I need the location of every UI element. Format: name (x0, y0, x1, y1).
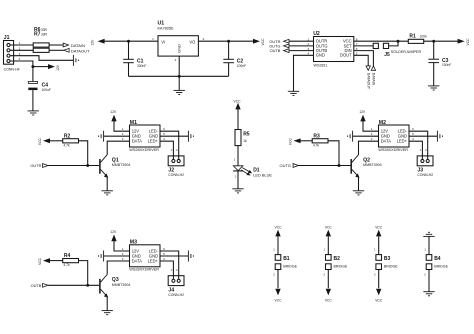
module M1 (122, 120, 165, 152)
ground U2 (288, 91, 299, 95)
wire B2 to bottom VCC (327, 270, 329, 289)
svg-text:OUTR: OUTR (30, 163, 41, 168)
svg-text:330nF: 330nF (137, 64, 146, 68)
svg-text:BRIDGE: BRIDGE (283, 265, 297, 269)
svg-text:CONN-H4: CONN-H4 (4, 67, 20, 71)
transistor Q2 (351, 155, 381, 178)
svg-text:DATA: DATA (381, 139, 392, 144)
pin number (424, 248, 426, 252)
wire OUTG to Q2 base (299, 165, 351, 167)
ground left (348, 131, 353, 142)
bridge B4 (426, 255, 448, 270)
wire M2.DATA to Q2 (359, 141, 379, 155)
power 12V arrow M3 (110, 230, 117, 241)
wire C4 to ground (32, 90, 34, 111)
svg-text:J1: J1 (4, 35, 10, 41)
svg-text:R3: R3 (313, 133, 320, 139)
wire top to B3 (378, 236, 380, 254)
svg-text:12V: 12V (359, 110, 366, 114)
svg-text:100nF: 100nF (237, 64, 246, 68)
port OUTR (269, 39, 289, 44)
ground right (188, 251, 193, 262)
wire top to B2 (327, 236, 329, 254)
wire J5 to VCC net (389, 41, 398, 46)
bridge B3 (376, 255, 398, 270)
ground Q3 (102, 311, 113, 315)
connector J2 (168, 156, 184, 177)
port DATAIN (63, 43, 85, 48)
power VCC arrow R3 (289, 138, 301, 146)
wire M1.LED+ to J2 (160, 141, 173, 159)
svg-text:100nF: 100nF (442, 63, 451, 67)
power VCC arrow U1 output (253, 38, 265, 46)
capacitor C1 (123, 58, 146, 67)
regulator U1 (152, 20, 204, 62)
svg-text:VCC: VCC (234, 99, 242, 103)
capacitor C3 (428, 58, 451, 67)
power VCC arrow bottom B2 (325, 289, 333, 303)
wire J1.3 to ground (10, 56, 73, 61)
svg-text:4.7k: 4.7k (63, 263, 70, 267)
wire M1.LED- to J2 (160, 131, 179, 159)
wire ground to M1.GND (104, 135, 130, 137)
svg-text:B3: B3 (384, 256, 391, 262)
pin number (234, 157, 236, 161)
svg-text:CONN-H2: CONN-H2 (417, 173, 433, 177)
svg-text:33R: 33R (41, 33, 48, 37)
wire B1 to bottom VCC (277, 270, 279, 289)
svg-text:DATA: DATA (132, 139, 143, 144)
svg-text:VCC: VCC (375, 299, 383, 303)
wire 12V to M3 (114, 241, 130, 251)
wire M3.GND right to ground (160, 255, 188, 257)
pin numbers (171, 148, 178, 152)
svg-text:WS28XXDRIVER: WS28XXDRIVER (378, 148, 408, 152)
svg-text:WS28XXDRIVER: WS28XXDRIVER (129, 268, 159, 272)
svg-text:VCC: VCC (261, 38, 265, 46)
resistor R7 (33, 32, 49, 53)
wire OUTB to U2 (289, 50, 314, 52)
resistor R4 (63, 253, 79, 267)
wire VCC to R5 (237, 109, 239, 130)
wire R3 to Q2 base (328, 141, 339, 166)
svg-text:MMBT3904: MMBT3904 (363, 163, 382, 167)
power VCC arrow top B2 (325, 225, 333, 236)
wire OUTR to Q1 base (48, 165, 99, 167)
svg-text:BRIDGE: BRIDGE (334, 265, 348, 269)
svg-text:MMBT3904: MMBT3904 (112, 283, 131, 287)
svg-text:B4: B4 (434, 256, 441, 262)
resistor R2 (63, 133, 79, 147)
power VCC arrow bottom B3 (375, 289, 383, 303)
pin number (324, 248, 326, 252)
resistor R6 (33, 27, 49, 47)
wire C2 (228, 41, 230, 76)
pin numbers J1 (19, 41, 21, 61)
power VCC arrow bottom B1 (275, 289, 283, 303)
wire Q3 emitter to ground (106, 297, 108, 311)
svg-text:M3: M3 (130, 240, 137, 246)
wire 12V to M1 (114, 121, 130, 131)
wire U2.SET to J5 (354, 45, 373, 47)
port DATAIN vertical (371, 66, 375, 86)
svg-text:M2: M2 (379, 120, 386, 126)
ground top B4 (423, 232, 434, 236)
svg-text:SOLDERJUMPER: SOLDERJUMPER (391, 50, 422, 54)
resistor R5 (235, 130, 250, 146)
ground J1.3 (73, 55, 78, 66)
svg-text:OUTB: OUTB (270, 48, 281, 53)
power VCC arrow right (458, 38, 470, 46)
pin number (273, 273, 275, 277)
LED D1 (233, 166, 272, 178)
svg-text:4.7k: 4.7k (313, 143, 320, 147)
svg-text:LED+: LED+ (148, 139, 159, 144)
svg-text:DATAOUT: DATAOUT (71, 48, 90, 53)
wire C3 (433, 41, 435, 86)
wire R2 to Q1 base (79, 141, 88, 166)
power 12V arrow U1 input (90, 39, 104, 46)
svg-text:VCC: VCC (466, 38, 470, 46)
junction (227, 40, 230, 43)
port OUTB (31, 283, 48, 288)
wire R5 to D1 (237, 146, 239, 166)
bridge B1 (275, 255, 297, 270)
svg-text:12V: 12V (90, 39, 94, 46)
wire 12V to M2 (363, 121, 379, 131)
ground D1 (232, 189, 243, 193)
junction (178, 75, 181, 78)
junction (127, 40, 130, 43)
svg-text:WS2811: WS2811 (314, 63, 328, 67)
svg-text:100k: 100k (420, 35, 428, 39)
svg-text:VCC: VCC (275, 225, 283, 229)
wire R6 to DATAIN (49, 44, 63, 46)
svg-text:R2: R2 (64, 133, 71, 139)
wire U2.DIN to DATAIN (354, 51, 374, 66)
wire ground to M3.GND (104, 255, 130, 257)
port OUTG (269, 44, 289, 49)
wire R7 to DATAOUT (49, 49, 64, 51)
ground C4 (28, 111, 39, 115)
junction (338, 164, 341, 167)
port OUTR (30, 163, 48, 168)
power VCC arrow R4 (38, 257, 50, 265)
junction (397, 40, 400, 43)
svg-text:B1: B1 (283, 256, 290, 262)
svg-text:DATA: DATA (132, 258, 143, 263)
svg-text:LED BLUE: LED BLUE (253, 172, 272, 177)
svg-text:U2: U2 (313, 31, 320, 37)
wire M3.LED- to J4 (160, 251, 179, 279)
svg-text:BRIDGE: BRIDGE (384, 265, 398, 269)
transistor Q3 (100, 275, 130, 298)
svg-text:12V: 12V (110, 110, 117, 114)
pin number (235, 175, 237, 179)
pin numbers (171, 268, 178, 272)
wire U2.DOUT to DATAOUT (354, 55, 368, 66)
connector J3 (417, 156, 433, 177)
pin number (374, 248, 376, 252)
wire U2.GND to ground (294, 55, 314, 91)
wire J1.2 to R7 (10, 49, 33, 51)
wire R1 to VCC (424, 40, 459, 42)
ground bottom B4 (423, 292, 434, 296)
svg-text:DATAOUT: DATAOUT (366, 73, 370, 90)
wire R4 to Q3 base (79, 261, 88, 286)
wire C1 (128, 41, 130, 76)
svg-text:B2: B2 (334, 256, 341, 262)
svg-text:VCC: VCC (289, 138, 293, 146)
junction (31, 65, 34, 68)
ground Q1 (102, 191, 113, 195)
svg-text:VO: VO (189, 39, 195, 44)
ground U1 (174, 90, 185, 94)
resistor R1 (408, 34, 427, 44)
wire M3.LED+ to J4 (160, 261, 173, 279)
wire U1.VO to VCC (198, 40, 253, 42)
wire U2.VCC to R1 (354, 40, 409, 42)
junction (86, 164, 89, 167)
wire M3.DATA to Q3 (107, 261, 129, 275)
ground right (188, 131, 193, 142)
svg-text:VCC: VCC (325, 225, 333, 229)
svg-text:GND: GND (177, 44, 182, 53)
wire Q1 emitter to ground (106, 177, 108, 191)
power VCC arrow R2 (38, 138, 50, 146)
pin number (273, 248, 275, 252)
svg-text:R1: R1 (409, 34, 416, 40)
wire OUTG to U2 (289, 45, 314, 47)
bridge B2 (326, 255, 348, 270)
module M3 (122, 240, 165, 272)
solder jumper J5 (373, 43, 421, 58)
wire B4 to ground (428, 270, 430, 292)
svg-text:VCC: VCC (275, 299, 283, 303)
svg-text:DOUT: DOUT (340, 53, 352, 58)
wire D1 to ground (237, 171, 239, 188)
svg-text:12V: 12V (56, 64, 60, 71)
svg-text:1k: 1k (243, 139, 247, 143)
pin numbers (420, 148, 427, 152)
svg-text:VI: VI (161, 39, 165, 44)
svg-text:CONN-H2: CONN-H2 (168, 173, 184, 177)
resistor R3 (312, 133, 328, 147)
wire Q2 emitter to ground (358, 177, 360, 191)
wire M2.LED+ to J3 (409, 141, 422, 159)
svg-text:KA7805E: KA7805E (158, 26, 175, 30)
transistor Q1 (100, 155, 130, 178)
svg-text:J5: J5 (384, 52, 390, 58)
svg-text:DATAIN: DATAIN (372, 73, 376, 86)
svg-text:4.7k: 4.7k (63, 143, 70, 147)
wire J1.4 to C4 and 12V (10, 61, 48, 82)
wire OUTR to U2 (289, 40, 314, 42)
svg-text:R5: R5 (243, 131, 250, 137)
wire M2.GND right to ground (409, 135, 437, 137)
svg-text:CONN-H2: CONN-H2 (168, 293, 184, 297)
ground left (99, 131, 104, 142)
svg-text:100uF: 100uF (42, 88, 51, 92)
svg-text:33R: 33R (41, 28, 48, 32)
svg-text:12V: 12V (110, 230, 117, 234)
wire M1.GND right to ground (160, 135, 188, 137)
wire J1.1 to R6 (10, 44, 33, 46)
junction (86, 284, 89, 287)
wire top to B4 (428, 236, 430, 254)
pin number (324, 273, 326, 277)
wire ground to M2.GND (353, 135, 379, 137)
svg-text:M1: M1 (130, 120, 137, 126)
wire B3 to bottom VCC (378, 270, 380, 289)
capacitor C2 (223, 58, 246, 67)
wire OUTB to Q3 base (48, 284, 99, 286)
wire VCC to R2 (50, 140, 63, 142)
port OUTB (270, 48, 289, 53)
wire M2.LED- to J3 (409, 131, 428, 159)
power 12V arrow M2 (359, 110, 366, 121)
svg-text:BRIDGE: BRIDGE (434, 265, 448, 269)
svg-text:GND: GND (316, 53, 325, 58)
junction (432, 40, 435, 43)
svg-text:LED+: LED+ (148, 258, 159, 263)
svg-text:LED+: LED+ (397, 139, 408, 144)
port DATAOUT vertical (366, 66, 370, 90)
connector J1 (4, 35, 20, 72)
svg-text:MMBT3904: MMBT3904 (112, 163, 131, 167)
svg-text:VCC: VCC (38, 257, 42, 265)
ground Q2 (353, 191, 364, 195)
ground C3 (428, 86, 439, 90)
ground left (99, 251, 104, 262)
svg-text:WS28XXDRIVER: WS28XXDRIVER (129, 148, 159, 152)
power VCC arrow R5 (234, 99, 242, 109)
power 12V arrow (48, 64, 60, 71)
wire VCC to R4 (50, 260, 63, 262)
pin number (374, 273, 376, 277)
power VCC arrow top B1 (275, 225, 283, 236)
port DATAOUT (64, 48, 90, 53)
wire ground rail (129, 56, 229, 90)
connector J4 (168, 276, 184, 297)
port OUTG (280, 163, 299, 168)
svg-text:VCC: VCC (375, 225, 383, 229)
svg-text:VCC: VCC (325, 299, 333, 303)
wire VCC to R3 (300, 140, 312, 142)
module M2 (371, 120, 414, 152)
power 12V arrow M1 (110, 110, 117, 121)
svg-text:U1: U1 (158, 20, 165, 26)
svg-text:R4: R4 (64, 253, 71, 259)
wire M1.DATA to Q1 (107, 141, 129, 155)
IC U2 (307, 31, 357, 68)
capacitor C4 (28, 82, 51, 93)
svg-text:OUTG: OUTG (280, 163, 291, 168)
ground right (437, 131, 442, 142)
wire top to B1 (277, 236, 279, 254)
svg-text:OUTB: OUTB (31, 283, 42, 288)
svg-text:VCC: VCC (38, 138, 42, 146)
pin number (424, 273, 426, 277)
power VCC arrow top B3 (375, 225, 383, 236)
wire 12V to U1.VI (104, 40, 158, 42)
svg-text:R7: R7 (34, 32, 41, 38)
